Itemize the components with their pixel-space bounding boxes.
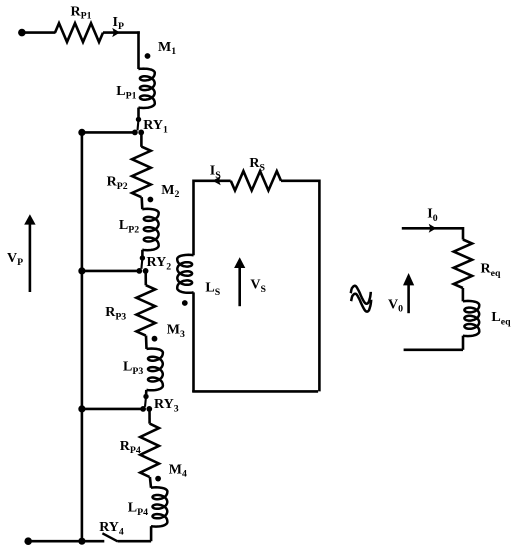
label L_S bbox=[205, 280, 220, 297]
wire bbox=[144, 271, 147, 285]
label M_4 bbox=[169, 462, 187, 479]
inductor L_P2 bbox=[142, 209, 158, 250]
current arrow I_S bbox=[212, 176, 220, 185]
label V_0 bbox=[388, 297, 403, 314]
inductor L_P3 bbox=[147, 349, 163, 391]
label M_2 bbox=[161, 183, 179, 200]
wire bbox=[82, 131, 135, 134]
label M_1 bbox=[158, 40, 176, 57]
label I_P bbox=[113, 15, 124, 32]
voltage arrow V_S bbox=[234, 257, 245, 306]
label R_P3 bbox=[105, 305, 126, 322]
label R_P2 bbox=[107, 175, 128, 192]
switch RY_4 bbox=[102, 533, 117, 541]
wire bbox=[462, 288, 465, 301]
voltage arrow V_0 bbox=[403, 273, 414, 313]
current arrow I_P bbox=[112, 28, 120, 37]
resistor R_P2 bbox=[132, 147, 151, 198]
resistor R_P3 bbox=[136, 285, 155, 335]
AC source symbol bbox=[351, 286, 372, 312]
wire (loop left upper) bbox=[192, 180, 195, 256]
label RY_3 bbox=[154, 397, 179, 414]
wire bbox=[82, 408, 143, 411]
label I_S bbox=[210, 163, 221, 180]
resistor R_eq bbox=[454, 240, 472, 289]
wire bbox=[28, 540, 105, 543]
node (bus row 1) bbox=[78, 129, 85, 136]
wire bbox=[145, 336, 148, 349]
label R_P4 bbox=[120, 439, 141, 456]
voltage arrow V_P bbox=[24, 214, 35, 292]
switch RY_2 bbox=[136, 255, 148, 273]
wire bbox=[140, 132, 143, 146]
wire bbox=[103, 31, 140, 34]
label R_P1 bbox=[71, 4, 92, 21]
inductor L_S bbox=[177, 255, 193, 293]
resistor R_P1 bbox=[55, 23, 103, 42]
wire bbox=[137, 108, 140, 120]
dot M3 bbox=[152, 336, 158, 342]
inductor L_P4 bbox=[151, 487, 167, 526]
label RY_4 bbox=[99, 520, 124, 537]
wire bbox=[22, 31, 56, 34]
wire bbox=[82, 270, 139, 273]
wire (loop right side) bbox=[318, 180, 321, 392]
wire bbox=[141, 250, 144, 258]
label R_S bbox=[249, 156, 265, 173]
dot M2 bbox=[148, 197, 154, 203]
wire bbox=[150, 477, 151, 488]
wire (loop top-right) bbox=[281, 180, 319, 183]
resistor R_P4 bbox=[140, 424, 159, 477]
label M_3 bbox=[167, 323, 185, 340]
current arrow I_0 bbox=[429, 224, 437, 233]
wire (loop top-left) bbox=[194, 180, 231, 183]
wire bbox=[402, 227, 463, 240]
switch RY_1 bbox=[132, 117, 144, 136]
wire bbox=[404, 336, 463, 350]
wire bbox=[140, 197, 143, 209]
node (bus bottom) bbox=[78, 538, 85, 545]
inductor L_eq bbox=[463, 301, 479, 336]
wire bbox=[137, 31, 140, 69]
wire bbox=[148, 409, 151, 424]
label RY_1 bbox=[143, 118, 168, 135]
label RY_2 bbox=[147, 255, 172, 272]
label L_P2 bbox=[119, 218, 139, 235]
label L_P4 bbox=[128, 501, 148, 518]
label V_P bbox=[7, 251, 23, 268]
switch RY_3 bbox=[140, 394, 152, 412]
label R_eq bbox=[481, 261, 501, 278]
resistor R_S bbox=[231, 171, 281, 190]
dot M4 bbox=[155, 476, 161, 482]
label L_P3 bbox=[123, 359, 143, 376]
wire bbox=[118, 526, 152, 541]
terminal node (primary bottom-left) bbox=[24, 537, 32, 545]
terminal node (primary top-left) bbox=[18, 29, 26, 37]
wire bbox=[145, 390, 148, 397]
inductor L_P1 bbox=[138, 69, 154, 108]
dot (L_S polarity) bbox=[182, 300, 188, 306]
wire (left bus) bbox=[81, 132, 84, 541]
node (bus row 3) bbox=[78, 405, 85, 412]
label I_0 bbox=[427, 207, 437, 224]
wire (loop left lower) bbox=[192, 292, 195, 392]
label L_P1 bbox=[116, 84, 136, 101]
wire (loop bottom) bbox=[192, 390, 318, 393]
label L_eq bbox=[491, 310, 511, 327]
label V_S bbox=[250, 277, 266, 294]
dot M1 bbox=[145, 53, 151, 59]
node (bus row 2) bbox=[78, 267, 85, 274]
